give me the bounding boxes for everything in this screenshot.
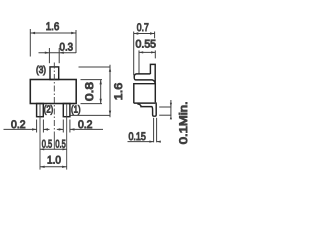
package body (front view) [30, 80, 76, 104]
svg-text:(2): (2) [44, 104, 54, 115]
svg-text:0.7: 0.7 [137, 22, 149, 34]
dimension 0.7 (overall depth, side view) [134, 22, 155, 75]
bottom lead pin 1 [63, 104, 70, 117]
bottom lead pin 2 [37, 104, 44, 117]
dimension 1.6 (overall height) [70, 65, 125, 118]
svg-text:0.8: 0.8 [84, 82, 96, 101]
dimension 0.3 (top lead width) [39, 41, 77, 63]
top lead (pin 3) [50, 67, 59, 80]
pin3 tab folded over top (side view) [134, 74, 155, 83]
centerline of package [53, 63, 55, 132]
dimension 1.0 (outer lead pitch) [40, 154, 67, 168]
svg-text:(1): (1) [71, 104, 81, 115]
svg-text:(3): (3) [36, 65, 46, 76]
svg-text:1.6: 1.6 [46, 21, 60, 33]
svg-text:1.0: 1.0 [47, 154, 61, 166]
centerline lead 1 [66, 105, 68, 170]
svg-text:1.6: 1.6 [113, 83, 125, 100]
bottom lead wrapping under body to foot (side view) [134, 102, 156, 116]
svg-text:0.55: 0.55 [136, 39, 157, 51]
svg-text:0.5: 0.5 [55, 138, 65, 150]
dimension 0.1 Min (standoff) [159, 100, 190, 144]
svg-text:0.1Min.: 0.1Min. [178, 101, 190, 144]
dimension 0.55 (body depth, side view) [136, 39, 157, 74]
package body (side view) [134, 84, 156, 104]
pin3 riser (side view) [150, 64, 155, 83]
centerline lead 2 [39, 105, 41, 170]
dimension 0.2 (right lead width) [57, 119, 103, 133]
dimension 0.15 (lead thickness) [128, 118, 161, 143]
dimension 0.2 (left lead width) [4, 119, 50, 133]
dimension 0.5 0.5 (lead pitch) [40, 138, 67, 150]
svg-text:0.3: 0.3 [60, 41, 74, 53]
dimension 1.6 (front view width) [30, 21, 76, 57]
dimension 0.8 (body height) [81, 80, 103, 104]
